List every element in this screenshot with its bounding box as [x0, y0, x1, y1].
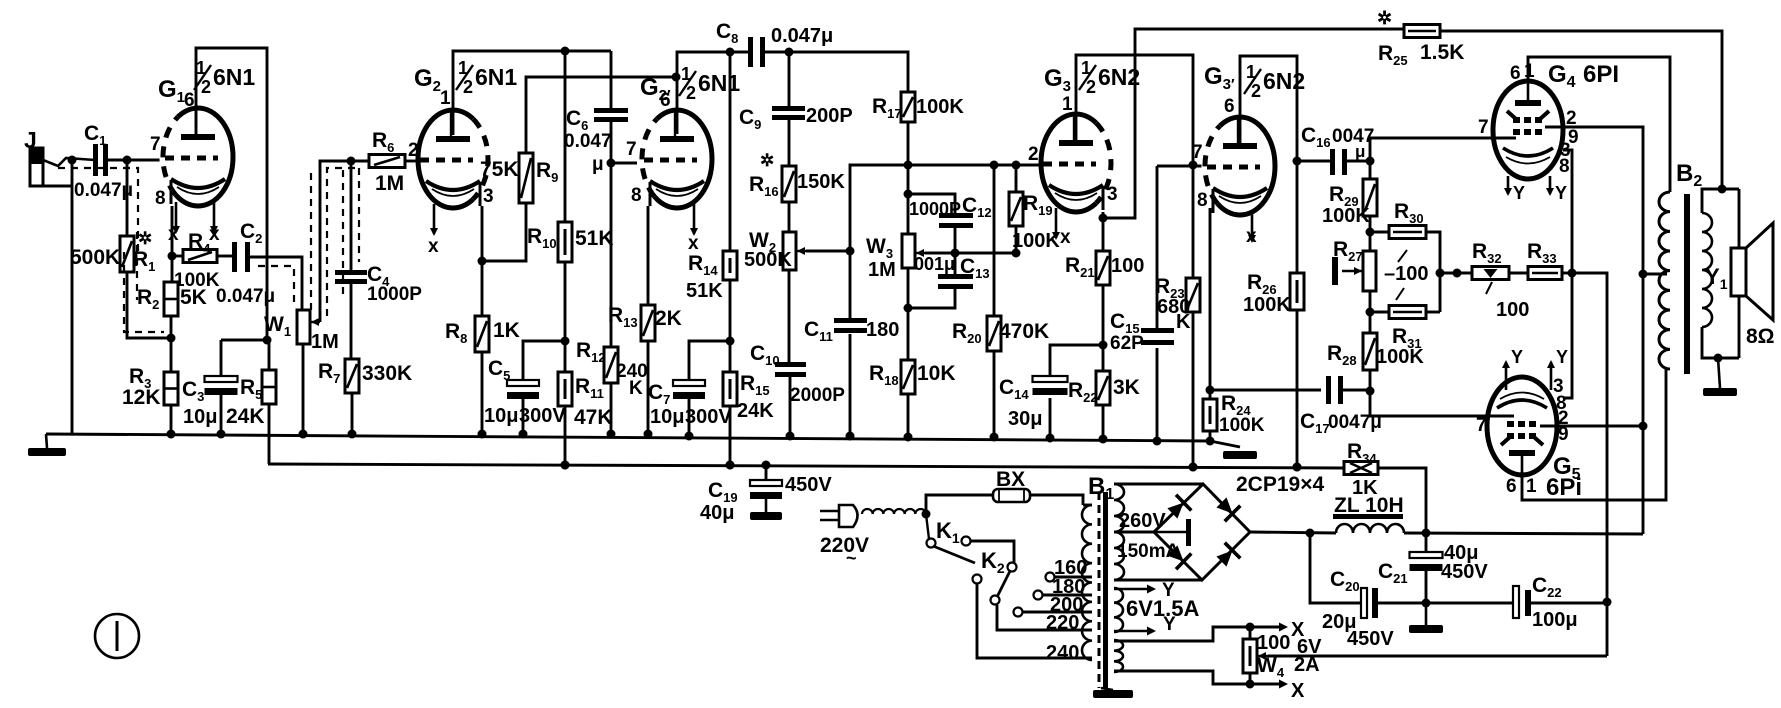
svg-text:Y: Y — [1556, 347, 1568, 367]
label C7 value — [650, 406, 684, 428]
wire C2 to W1 — [250, 257, 302, 310]
svg-text:3K: 3K — [1113, 376, 1140, 399]
wire R19 leads — [1015, 165, 1018, 192]
svg-text:51K: 51K — [575, 227, 614, 250]
svg-text:8Ω: 8Ω — [1746, 325, 1775, 348]
resistor R34 (fusible) — [1344, 462, 1378, 475]
svg-text:1: 1 — [1524, 61, 1535, 82]
label G2 type — [456, 58, 517, 97]
heater G4 left — [1504, 176, 1512, 196]
label C3 value — [183, 406, 217, 428]
wire node to C7 — [689, 341, 730, 381]
wire C20 to C21 node — [1378, 602, 1426, 605]
wire R5 top lead — [268, 340, 271, 370]
label C3 — [182, 378, 204, 404]
svg-text:1M: 1M — [311, 331, 339, 353]
svg-text:6: 6 — [1224, 96, 1235, 117]
wire G3 plate top — [1076, 55, 1198, 278]
resistor R21 — [1096, 251, 1110, 285]
6V arrow top — [1114, 585, 1156, 594]
label R7 — [318, 360, 340, 386]
wire choke to B+ node — [1404, 529, 1643, 538]
wire C13 top — [954, 253, 957, 274]
svg-text:330K: 330K — [362, 362, 412, 385]
label Y G5a — [1511, 347, 1523, 367]
wire W2 to ground upper — [788, 270, 791, 362]
svg-text:6N1: 6N1 — [475, 64, 517, 90]
wire R26 to B+ rail — [1293, 310, 1302, 472]
resistor R28 — [1363, 333, 1377, 370]
svg-text:200P: 200P — [806, 105, 853, 127]
svg-text:8: 8 — [1559, 156, 1570, 177]
svg-text:3: 3 — [1107, 184, 1118, 205]
label R12 value2 — [629, 378, 643, 399]
resistor R26 — [1290, 273, 1304, 310]
resistor R29 — [1363, 179, 1377, 216]
label R9 value — [480, 158, 519, 181]
label R31 value — [1376, 346, 1424, 368]
label 220 — [1046, 612, 1079, 634]
label BX — [996, 468, 1025, 491]
svg-text:–100: –100 — [1384, 263, 1429, 285]
wire C10 bottom — [786, 377, 795, 441]
6V arrow bottom — [1114, 627, 1156, 636]
svg-text:40μ: 40μ — [700, 502, 734, 524]
label C20 — [1330, 568, 1360, 594]
svg-text:30μ: 30μ — [1008, 408, 1042, 430]
label R32 — [1472, 240, 1502, 266]
capacitor C14 — [1033, 376, 1068, 395]
arrow X top — [1279, 623, 1288, 632]
ground C21 — [1409, 603, 1443, 633]
wire C17 node to G5 grid — [1370, 391, 1514, 416]
label R18 — [869, 362, 899, 388]
label C4 value — [367, 284, 422, 305]
label R21 — [1065, 254, 1095, 280]
figure number circle — [95, 614, 139, 658]
wire R30 right to R31 — [1426, 232, 1445, 312]
label R14 — [688, 252, 718, 278]
svg-text:K: K — [1176, 311, 1191, 333]
speaker Y1 — [1731, 223, 1773, 320]
tap 200 — [1022, 611, 1092, 614]
wire C3 to ground — [217, 395, 226, 439]
wire R26 top — [1296, 161, 1299, 273]
wire wiper column to G3 grid — [850, 161, 1042, 319]
label C7 volt — [685, 406, 732, 428]
wire C17 to R28 node — [1343, 389, 1370, 392]
label W1 — [264, 313, 291, 339]
capacitor C12 — [939, 213, 973, 228]
capacitor C21 — [1410, 552, 1443, 571]
svg-text:ZL 10H: ZL 10H — [1334, 494, 1404, 517]
wire C9 to R16 — [788, 120, 791, 166]
wire C12 bottom — [954, 228, 957, 253]
svg-text:450V: 450V — [785, 474, 832, 496]
label C21 — [1378, 560, 1408, 586]
label R26 — [1247, 271, 1277, 297]
svg-text:100μ: 100μ — [1532, 609, 1578, 631]
resistor R24 — [1203, 399, 1217, 431]
label K1 — [936, 518, 960, 546]
capacitor C5 — [507, 380, 539, 399]
asterisk near R1 — [138, 229, 152, 248]
dashed shield C4 branch b — [358, 168, 360, 262]
label X bottom — [1291, 680, 1305, 702]
wire C12 branch — [908, 194, 955, 215]
input jack J — [30, 148, 95, 186]
label G2' — [640, 74, 671, 104]
wire W3 to R18 — [907, 268, 910, 360]
wire C8 to R17 corner — [765, 48, 908, 93]
svg-text:150K: 150K — [797, 171, 845, 193]
capacitor C19 — [750, 480, 782, 499]
wire G4 screen — [1545, 127, 1648, 534]
label G4 6P1 — [1548, 61, 1576, 91]
svg-text:2: 2 — [1086, 77, 1096, 97]
label R24 — [1221, 392, 1251, 418]
label G1 — [158, 76, 185, 106]
wire R4 to C2 — [217, 255, 232, 258]
label C8 value — [771, 25, 833, 47]
svg-text:180: 180 — [866, 319, 899, 341]
label R1 500K — [70, 246, 120, 269]
wire R9 top to G2p plate — [526, 73, 681, 154]
label G2 — [414, 65, 441, 95]
label R2 value — [180, 286, 207, 309]
label G3 type — [1079, 58, 1140, 97]
dashed shield W1 wiper b — [310, 172, 312, 310]
wire R34 to choke node — [1378, 468, 1426, 533]
triode G2 (1/2 6N1) — [418, 88, 494, 236]
label R34 — [1347, 440, 1377, 466]
wire R10 to node — [561, 262, 570, 346]
wire C14 branch — [1050, 345, 1103, 377]
wire C3 top lead — [220, 340, 223, 377]
label C22 — [1532, 574, 1562, 600]
label R25 — [1378, 42, 1408, 68]
label C17 — [1300, 410, 1330, 436]
transformer B1 core — [1099, 492, 1108, 688]
label 240 — [1046, 642, 1079, 664]
dashed shield C4 branch — [342, 170, 344, 300]
tap 220 to K2 pivot — [997, 605, 1092, 630]
label ZL 10H — [1334, 494, 1404, 517]
svg-text:100K: 100K — [1219, 415, 1265, 436]
label R8 — [445, 320, 467, 346]
wire C11 to ground — [846, 334, 855, 441]
svg-text:6: 6 — [184, 90, 195, 111]
label C2 value — [216, 286, 275, 307]
svg-text:7: 7 — [1478, 117, 1489, 138]
svg-text:150mA: 150mA — [1117, 541, 1180, 562]
wire cathode to R4 — [172, 255, 183, 258]
label W4 — [1257, 654, 1285, 680]
svg-text:2K: 2K — [655, 307, 682, 330]
transformer B2 secondary — [1702, 213, 1712, 327]
potentiometer W2 — [783, 232, 806, 270]
svg-text:75K: 75K — [480, 158, 519, 181]
resistor R4 — [183, 250, 217, 263]
wire R31 right — [1426, 311, 1440, 314]
label R16 value — [797, 171, 845, 193]
label R26 value — [1243, 294, 1291, 316]
svg-text:100: 100 — [1496, 299, 1529, 321]
wire HV CT to bridge left — [1114, 531, 1154, 534]
label R25 value — [1420, 41, 1464, 64]
wire R12 to ground — [607, 383, 616, 439]
wire C9 column — [788, 52, 791, 108]
wire R2 to R3 — [167, 316, 176, 372]
resistor R8 — [475, 316, 489, 352]
asterisk near R25 — [1377, 8, 1392, 28]
resistor R33 — [1528, 267, 1562, 280]
resistor R1 — [120, 236, 134, 272]
wire R14 top column — [726, 48, 735, 252]
svg-text:7: 7 — [626, 139, 637, 160]
label C14 value — [1008, 408, 1042, 430]
wire G2' cathode to R13 — [647, 206, 650, 305]
triode G3 (1/2 6N2) — [1028, 94, 1118, 240]
label C2 — [240, 220, 262, 246]
wire W2 wiper to column — [806, 247, 855, 256]
label R8 value — [493, 319, 520, 342]
label G1 type — [194, 58, 255, 97]
wire G5 cathode node — [1563, 273, 1572, 398]
label C1 value — [74, 180, 133, 201]
wire K1 to K2 — [970, 541, 1014, 563]
svg-text:8: 8 — [631, 185, 642, 206]
choke ZL 10H core — [1333, 514, 1403, 519]
svg-text:10μ: 10μ — [484, 405, 518, 427]
label Y G5b — [1556, 347, 1568, 367]
wire R31 left — [1370, 311, 1389, 314]
label Y 6V bottom — [1163, 614, 1176, 635]
label R15 — [740, 372, 770, 398]
wire C15 to ground — [1153, 348, 1162, 446]
wire W1 to ground — [299, 344, 308, 439]
label R17 — [872, 95, 902, 121]
wire R16 to W2 — [788, 202, 791, 232]
wire R1 bottom — [127, 272, 171, 338]
label W1 value — [311, 331, 339, 353]
wire cathode to R9 — [482, 203, 526, 261]
tilde 220V — [846, 548, 857, 568]
tap circle 160 — [1046, 573, 1055, 582]
capacitor C8 — [748, 37, 765, 67]
label J — [24, 127, 37, 153]
wire BX to B1 — [1030, 495, 1083, 505]
wire R18 to ground — [904, 394, 913, 442]
resistor R11 — [558, 372, 572, 406]
tap 240 — [977, 584, 1092, 658]
label 2CP19x4 — [1236, 473, 1324, 496]
label R20 — [952, 320, 982, 346]
wire plug to BX — [922, 495, 994, 519]
wire R29 to node — [1366, 216, 1375, 251]
transformer B2 core — [1684, 194, 1690, 374]
pin labels G5 — [1506, 376, 1569, 497]
wire G5 screen — [1540, 425, 1643, 428]
wire R1 top lead — [126, 160, 129, 236]
B+ rail — [268, 461, 1344, 472]
label C13 — [960, 255, 990, 281]
label R28 — [1327, 342, 1357, 368]
wire G4 plate to OPT top — [1528, 57, 1670, 192]
heater G5 left — [1502, 360, 1510, 390]
svg-text:100K: 100K — [916, 96, 964, 118]
ground speaker — [1703, 358, 1737, 396]
label R23 value — [1157, 296, 1190, 318]
label G3 — [1044, 65, 1071, 95]
label pin7 G5 — [1476, 415, 1487, 436]
wire G2 plate top — [453, 47, 611, 136]
label C10 value — [790, 385, 845, 406]
label 260V — [1119, 510, 1166, 532]
label C10 — [750, 342, 780, 368]
svg-text:24K: 24K — [737, 400, 774, 422]
svg-text:μ: μ — [1355, 142, 1365, 161]
wire R32 to R33 — [1509, 272, 1528, 275]
resistor R23 — [1186, 278, 1200, 312]
label R12 — [576, 339, 606, 365]
dashed shield R1 loop — [124, 252, 164, 332]
label R19 — [1023, 192, 1053, 218]
svg-text:Y: Y — [1513, 183, 1525, 203]
wire node to C5 — [523, 341, 565, 381]
svg-text:1000P: 1000P — [367, 284, 422, 305]
wire screen to OPT CT — [1643, 273, 1667, 276]
resistor R25 — [1404, 25, 1440, 38]
dashed shield W1 wiper — [327, 168, 360, 316]
label C21 value — [1444, 542, 1478, 564]
capacitor C15 — [1141, 328, 1174, 345]
label R9 — [536, 159, 558, 185]
wire R10 column top — [564, 51, 567, 222]
wire R17 to W3 — [904, 122, 913, 234]
label C6 value1 — [564, 131, 612, 152]
svg-text:6PI: 6PI — [1583, 61, 1619, 88]
svg-text:1K: 1K — [493, 319, 520, 342]
wire G3' cathode to R24 — [1209, 208, 1212, 399]
wire plate node to C3 — [221, 336, 272, 345]
label x heater G1b — [209, 224, 220, 245]
wire HV bottom to bridge — [1114, 579, 1202, 582]
capacitor C2 — [232, 242, 250, 272]
choke ZL 10H — [1336, 524, 1404, 533]
label W3 value — [868, 259, 896, 281]
label R29 — [1329, 183, 1359, 209]
svg-text:2: 2 — [1251, 81, 1261, 101]
pentode G4 (6P1) — [1493, 81, 1563, 179]
label C6 value2 — [592, 154, 604, 175]
label R24 value — [1219, 415, 1265, 436]
switch K1 — [926, 514, 975, 563]
svg-text:300V: 300V — [519, 405, 566, 427]
label x heater G1a — [168, 224, 179, 245]
wire W3 wiper line — [925, 249, 1021, 258]
wire C19 top — [765, 465, 768, 481]
svg-text:✲: ✲ — [1377, 8, 1392, 28]
wire C21 bottom — [1422, 571, 1431, 608]
wire R28 to C17 node — [1366, 370, 1375, 396]
wire R3 to ground bus — [167, 405, 176, 439]
potentiometer W4 — [1243, 639, 1257, 673]
label R3 — [129, 365, 151, 391]
label G3p type — [1244, 62, 1305, 101]
svg-text:Y: Y — [1511, 347, 1523, 367]
resistor R12 — [604, 347, 618, 383]
label 6V1.5A — [1126, 596, 1199, 621]
wire R27 to R28 — [1366, 291, 1375, 333]
svg-text:6V1.5A: 6V1.5A — [1126, 596, 1199, 621]
resistor R17 — [901, 92, 915, 122]
label Y1 — [1705, 264, 1728, 292]
wire R7 to ground — [348, 393, 357, 439]
label C15 value — [1110, 333, 1144, 354]
label C16 mu — [1355, 142, 1365, 161]
capacitor C17 — [1326, 376, 1343, 404]
svg-text:6N1: 6N1 — [213, 64, 255, 90]
label x heater G3 — [1060, 227, 1071, 248]
wire B1 prim top — [1083, 504, 1092, 507]
fuse BX — [993, 489, 1030, 502]
switch K2 — [991, 563, 1017, 605]
label R14 value — [686, 280, 723, 302]
dashed shield input — [58, 168, 138, 252]
wire R20 to ground — [990, 351, 999, 442]
svg-text:x: x — [428, 236, 439, 257]
label C5 value — [484, 405, 518, 427]
label C12 value — [909, 199, 961, 219]
resistor R2 — [164, 282, 178, 316]
wire G3' plate top — [1240, 56, 1297, 161]
svg-text:100K: 100K — [1322, 205, 1370, 227]
label G5 — [1553, 453, 1581, 483]
label C22 value — [1532, 609, 1578, 631]
label C19 value — [700, 502, 734, 524]
wire R24 to bus — [1206, 431, 1215, 446]
wire gnd node to C22 — [1426, 602, 1515, 605]
wire R23 to B+ rail — [1189, 312, 1198, 472]
svg-text:1: 1 — [1062, 94, 1073, 115]
label R10 value — [575, 227, 614, 250]
wire C16 node — [1293, 157, 1332, 166]
wire R11 to B+ rail — [561, 406, 570, 470]
label C20 value — [1322, 611, 1356, 633]
ground B1 core — [1093, 688, 1133, 698]
wire C21 top — [1425, 533, 1428, 553]
svg-text:51K: 51K — [686, 280, 723, 302]
tap 180 — [1042, 594, 1092, 597]
wire R22 to ground — [1099, 405, 1108, 444]
resistor R15 — [723, 372, 737, 406]
svg-text:100K: 100K — [1243, 294, 1291, 316]
wire C4 top lead — [350, 161, 353, 272]
svg-text:0.047μ: 0.047μ — [771, 25, 833, 47]
label R32 value — [1496, 299, 1529, 321]
wire bus to gnd sym right — [1210, 441, 1240, 447]
svg-text:7: 7 — [1192, 142, 1203, 163]
label K2 — [981, 548, 1005, 576]
tap 160 — [1054, 576, 1092, 579]
svg-text:100: 100 — [1257, 632, 1290, 654]
wire G1 cathode to R2 — [168, 206, 177, 282]
svg-text:47K: 47K — [574, 406, 613, 429]
capacitor C22 — [1513, 586, 1531, 618]
resistor R7 — [345, 359, 359, 393]
label 6PI — [1583, 61, 1619, 88]
